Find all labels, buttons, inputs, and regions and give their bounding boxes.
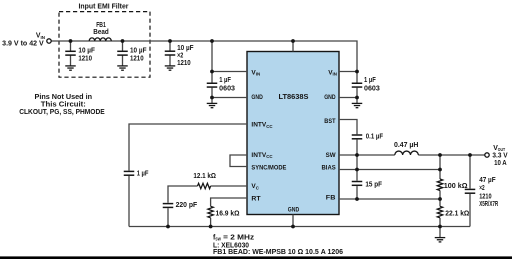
- svg-text:10 µF: 10 µF: [130, 47, 147, 54]
- svg-text:GND: GND: [324, 94, 336, 101]
- svg-text:3.3 V: 3.3 V: [492, 153, 508, 160]
- svg-text:3.9 V to 42 V: 3.9 V to 42 V: [2, 41, 44, 48]
- svg-text:10 µF: 10 µF: [78, 47, 95, 54]
- svg-text:GND: GND: [251, 94, 263, 101]
- svg-text:1210: 1210: [130, 55, 144, 62]
- svg-text:Bead: Bead: [93, 29, 108, 36]
- svg-text:SW: SW: [326, 152, 337, 159]
- svg-text:RT: RT: [251, 196, 260, 203]
- svg-text:16.9 kΩ: 16.9 kΩ: [216, 211, 240, 218]
- svg-text:Input EMI Filter: Input EMI Filter: [79, 4, 129, 11]
- svg-text:0603: 0603: [364, 85, 380, 92]
- svg-text:SYNC/MODE: SYNC/MODE: [251, 164, 287, 171]
- svg-text:GND: GND: [288, 207, 300, 214]
- svg-text:Pins Not Used in: Pins Not Used in: [35, 94, 93, 101]
- svg-text:FB: FB: [326, 195, 336, 202]
- svg-text:22.1 kΩ: 22.1 kΩ: [445, 210, 469, 217]
- svg-text:×2: ×2: [479, 185, 485, 192]
- svg-text:100 kΩ: 100 kΩ: [444, 183, 468, 190]
- svg-text:×2: ×2: [177, 52, 183, 59]
- svg-text:12.1 kΩ: 12.1 kΩ: [193, 173, 216, 180]
- svg-text:1210: 1210: [177, 60, 191, 67]
- svg-text:1210: 1210: [78, 55, 92, 62]
- svg-text:1 µF: 1 µF: [137, 170, 149, 177]
- svg-text:BIAS: BIAS: [322, 164, 337, 171]
- svg-text:0.47 µH: 0.47 µH: [394, 142, 418, 149]
- svg-text:X5R/X7R: X5R/X7R: [479, 201, 498, 208]
- svg-text:10 µF: 10 µF: [177, 45, 194, 52]
- svg-text:47 µF: 47 µF: [479, 177, 495, 184]
- svg-text:This Circuit:: This Circuit:: [41, 102, 86, 109]
- svg-text:15 pF: 15 pF: [365, 182, 382, 189]
- svg-text:CLKOUT, PG, SS, PHMODE: CLKOUT, PG, SS, PHMODE: [19, 109, 105, 116]
- svg-text:10 A: 10 A: [494, 160, 507, 167]
- svg-text:LT8638S: LT8638S: [279, 93, 309, 101]
- svg-text:FB1 BEAD: WE-MPSB 10 Ω 10.5 A: FB1 BEAD: WE-MPSB 10 Ω 10.5 A 1206: [213, 249, 343, 256]
- svg-text:0.1 µF: 0.1 µF: [366, 134, 383, 141]
- svg-text:1210: 1210: [479, 193, 492, 200]
- svg-text:220 pF: 220 pF: [176, 202, 198, 209]
- svg-text:1 µF: 1 µF: [364, 77, 376, 84]
- svg-text:1 µF: 1 µF: [219, 77, 231, 84]
- svg-text:BST: BST: [324, 118, 335, 125]
- svg-text:0603: 0603: [219, 85, 235, 92]
- svg-text:FB1: FB1: [96, 22, 106, 29]
